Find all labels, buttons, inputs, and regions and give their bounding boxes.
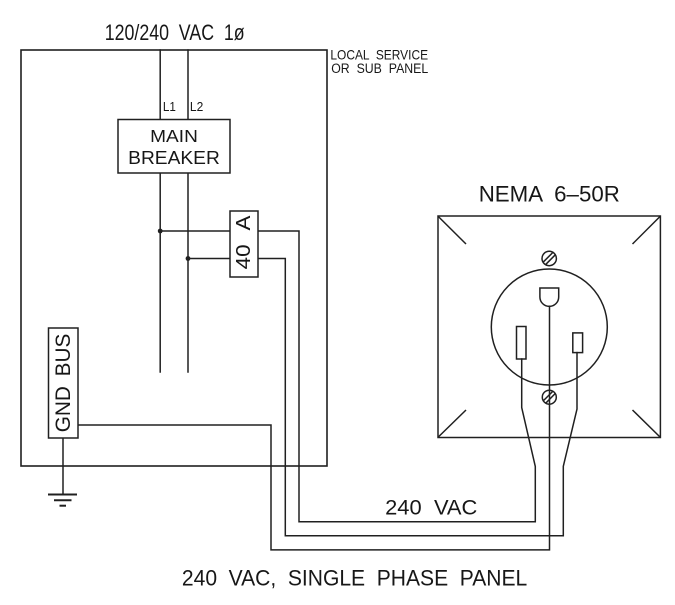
wire L2 feeder bbox=[187, 50, 189, 372]
bus GND BUS bbox=[49, 328, 79, 438]
svg-text:240 VAC: 240 VAC bbox=[385, 496, 477, 519]
svg-text:MAIN: MAIN bbox=[150, 126, 198, 146]
wire ground stub bbox=[62, 438, 64, 495]
ground bbox=[48, 495, 77, 506]
wire net B: L2 tap to 40A to right slot bbox=[188, 259, 577, 536]
breaker MAIN BREAKER bbox=[118, 120, 230, 174]
breaker 40A bbox=[230, 211, 258, 277]
svg-text:120/240 VAC 1ø: 120/240 VAC 1ø bbox=[105, 21, 245, 45]
node A junction dot bbox=[158, 229, 163, 234]
plate corner notch top-right bbox=[633, 217, 661, 245]
svg-text:L2: L2 bbox=[190, 99, 203, 114]
screw top bbox=[542, 251, 556, 265]
slot left blade bbox=[517, 327, 527, 360]
svg-text:OR SUB PANEL: OR SUB PANEL bbox=[331, 60, 428, 76]
slot ground D-hole bbox=[540, 288, 559, 306]
screw bottom bbox=[542, 390, 556, 404]
wire L1 feeder bbox=[159, 50, 161, 372]
plate corner notch bottom-right bbox=[633, 410, 661, 437]
receptacle plate bbox=[438, 216, 660, 438]
svg-text:L1: L1 bbox=[163, 99, 176, 114]
plate corner notch top-left bbox=[438, 217, 466, 245]
node B junction dot bbox=[186, 256, 191, 261]
wire net A: L1 tap to 40A to left slot bbox=[160, 231, 535, 522]
svg-text:GND BUS: GND BUS bbox=[52, 334, 75, 433]
plate corner notch bottom-left bbox=[438, 410, 466, 437]
svg-text:240 VAC, SINGLE PHASE PANEL: 240 VAC, SINGLE PHASE PANEL bbox=[182, 566, 527, 591]
slot right blade bbox=[573, 333, 583, 353]
svg-text:NEMA 6–50R: NEMA 6–50R bbox=[479, 182, 620, 207]
svg-text:40 A: 40 A bbox=[233, 215, 255, 270]
panel outline bbox=[21, 50, 327, 466]
svg-text:BREAKER: BREAKER bbox=[128, 147, 220, 167]
wire net G: ground bus to receptacle ground pin bbox=[78, 306, 550, 550]
receptacle face circle bbox=[491, 269, 607, 385]
